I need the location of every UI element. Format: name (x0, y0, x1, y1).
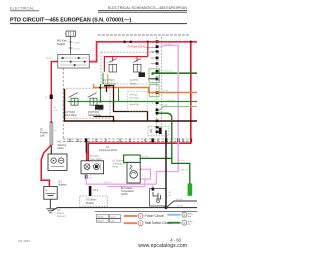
legend circle 3 (182, 212, 187, 217)
svg-text:(O) Org: (O) Org (161, 89, 169, 92)
header left rule (10, 9, 39, 12)
legend circle 4 (182, 220, 187, 225)
svg-text:www.epcatalogs.com: www.epcatalogs.com (138, 243, 187, 249)
wire: ground branch right (166, 207, 197, 209)
ground symbol battery (46, 209, 54, 213)
legend seat switch line (124, 222, 137, 224)
connector column pins (156, 40, 159, 133)
orange pin stub K3 (107, 74, 109, 84)
wire: red key switch to bus (89, 42, 197, 62)
wire: black relay to pin (148, 78, 157, 80)
svg-text:Clutch Relay: Clutch Relay (64, 114, 78, 117)
wire: battery to ground (49, 199, 51, 208)
connector highlight green box 2 (150, 85, 159, 97)
connector strip pins (85, 138, 192, 142)
connector strip X1 (63, 139, 191, 142)
key switch W1 (58, 54, 89, 68)
svg-text:K4 PTO(C): K4 PTO(C) (64, 112, 76, 114)
wire: brown step to right (107, 86, 148, 122)
wire: orange PTO clutch (94, 84, 198, 93)
svg-text:(R): (R) (54, 130, 57, 132)
green terminal cap (188, 183, 193, 195)
connector pin below lamp module (85, 174, 88, 178)
note box dashed (128, 92, 148, 112)
coolant temp switch B2 (150, 188, 172, 206)
svg-text:Motor: Motor (58, 147, 65, 150)
legend power circuit line (124, 215, 137, 217)
svg-text:Sw: Sw (188, 216, 191, 218)
legend green line (167, 222, 180, 224)
relay K1 symbol (133, 59, 145, 77)
ground junction dot (165, 206, 168, 209)
wire: black pin to lamp (85, 140, 87, 153)
svg-text:MX,4563: MX,4563 (18, 239, 30, 243)
legend circle 2 (138, 221, 143, 226)
connector X40 pink (140, 169, 151, 179)
junction dot green bottom (99, 100, 101, 102)
indicator lamp module H2 (81, 161, 104, 174)
svg-text:Switch: Switch (121, 193, 128, 196)
junction dot brown (112, 120, 114, 122)
svg-text:4 - 63: 4 - 63 (170, 238, 181, 243)
relay module box K4 K5 dashed (63, 88, 110, 118)
svg-text:(B) Blk: (B) Blk (177, 206, 184, 208)
wire: green from block (140, 157, 172, 159)
svg-text:X7.1: X7.1 (93, 188, 99, 192)
svg-text:Switch: Switch (57, 42, 66, 46)
wire: green relay feed (152, 73, 197, 75)
green pin stub K5 (118, 89, 120, 102)
svg-text:ELECTRICAL SCHEMATICS—455 EURO: ELECTRICAL SCHEMATICS—455 EUROPEAN (108, 6, 187, 10)
svg-text:Switch Rly: Switch Rly (129, 97, 138, 100)
wire: pink X7 branch (107, 179, 145, 187)
wire: red battery drop (41, 145, 51, 186)
wire: brown wrap around relay box (65, 89, 198, 121)
green pin stub K3 (102, 73, 104, 84)
battery G1 (44, 186, 57, 199)
svg-text:PTO CIRCUIT—455 EUROPEAN (S.N.: PTO CIRCUIT—455 EUROPEAN (S.N. 070001—) (10, 17, 131, 23)
svg-text:Red: Red (53, 110, 57, 112)
wire: pink lamp to bus (86, 174, 156, 184)
svg-text:H1 Engine: H1 Engine (112, 160, 123, 162)
connector K in battery wire (50, 95, 53, 99)
K2 label block (95, 107, 103, 112)
wire: red lamp drop (86, 153, 88, 162)
svg-text:PTO: PTO (188, 221, 193, 223)
legend blue line (167, 214, 180, 216)
title rule (10, 22, 187, 25)
wire: fusible to starting motor (50, 145, 52, 154)
svg-text:5 (Org): 5 (Org) (73, 47, 80, 50)
note box text (129, 94, 138, 106)
svg-text:(221) Grn: (221) Grn (163, 69, 173, 72)
harness dashed boundary left (62, 68, 64, 139)
ground bus wire (52, 208, 166, 211)
wire: ground branch diagonal (166, 201, 197, 208)
relay K4 symbol (69, 93, 78, 106)
svg-text:K5 PTO(S): K5 PTO(S) (88, 112, 99, 114)
svg-text:-: - (52, 195, 53, 199)
header right double rule (98, 9, 187, 12)
svg-text:Temperature: Temperature (121, 190, 135, 193)
svg-text:Ground: Ground (57, 215, 66, 218)
gray pin stubs (146, 48, 156, 64)
green connector block (124, 155, 141, 162)
wire: light green horizontal (158, 107, 197, 111)
relay module box K1 K3 dashed (101, 52, 158, 84)
svg-text:+: + (45, 188, 47, 192)
legend separator rule (95, 210, 197, 212)
svg-text:Relay: Relay (130, 83, 137, 85)
svg-text:(W) Pnk: (W) Pnk (104, 182, 111, 184)
svg-text:Blk: Blk (168, 195, 171, 197)
relay K5 symbol (88, 93, 104, 110)
wire: key switch lead (70, 36, 72, 54)
svg-text:Number: Number (97, 220, 104, 223)
junction dot fusible top (50, 121, 52, 123)
svg-text:PTO(S): PTO(S) (95, 110, 103, 112)
svg-text:K1 PTO: K1 PTO (130, 80, 138, 82)
wire: pink from connector (156, 45, 178, 184)
svg-text:1 (Blk): 1 (Blk) (73, 42, 80, 44)
svg-text:4 PTO(C): 4 PTO(C) (129, 94, 138, 96)
svg-text:(B) Blk: (B) Blk (176, 199, 183, 201)
svg-text:K3 PTO(C): K3 PTO(C) (103, 80, 115, 82)
svg-text:(G) Grn: (G) Grn (142, 156, 149, 158)
svg-text:Battery: Battery (58, 183, 67, 187)
legend table boxes (96, 215, 121, 222)
svg-text:(B): (B) (168, 192, 171, 194)
svg-text:Switch Rly: Switch Rly (129, 103, 138, 106)
junction dot green top (99, 87, 101, 89)
wire: green horizontal (68, 101, 198, 103)
starting motor M1 (48, 154, 67, 171)
svg-text:ELECTRICAL: ELECTRICAL (10, 6, 34, 10)
junction dot bus right (190, 41, 193, 44)
junction dot bus to K1 (147, 41, 149, 43)
wire: brown branch to relay (94, 117, 114, 122)
buzzer module A4 (127, 162, 140, 183)
svg-text:Instrument Panel: Instrument Panel (99, 149, 118, 152)
svg-text:(G) Grn: (G) Grn (177, 159, 185, 162)
svg-text:2 Seat(S): 2 Seat(S) (129, 100, 138, 103)
svg-text:Color: Color (110, 220, 115, 223)
wire: dark green to instrument panel (158, 113, 190, 189)
fuse F1 dots (123, 41, 126, 44)
connector column X2 dashed (156, 37, 158, 135)
svg-text:(Red): (Red) (46, 57, 52, 59)
svg-text:Symbol: Symbol (97, 217, 104, 219)
wire: green vertical from relay box (100, 84, 102, 102)
fusible link F2 (50, 123, 53, 146)
wire: pink into B2 (152, 184, 154, 189)
harness dashed boundary top (98, 34, 190, 36)
wire: red to fusible link (50, 99, 52, 123)
relay K3 symbol (109, 59, 117, 72)
svg-text:Power Circuit: Power Circuit (145, 214, 164, 218)
svg-text:Relay: Relay (112, 166, 119, 168)
wire: red drop to relay box (147, 42, 149, 57)
svg-text:Circuit: Circuit (110, 216, 116, 219)
diesel module connector X7.1 (89, 186, 92, 196)
connector X3 dashed (148, 126, 169, 136)
wire: red right vertical (88, 42, 191, 161)
svg-text:Module: Module (86, 202, 95, 205)
legend circle 1 (138, 213, 143, 218)
svg-text:F1 Fuse (15 A): F1 Fuse (15 A) (128, 45, 146, 49)
wire: black instrument ground (165, 130, 167, 207)
svg-text:W4 Wire: W4 Wire (90, 155, 100, 158)
connector highlight green box (149, 69, 159, 83)
svg-text:(R): (R) (53, 107, 56, 109)
svg-text:(G) Grn: (G) Grn (167, 99, 175, 102)
wire: red inside relay box (104, 57, 147, 72)
svg-text:(W) Pnk: (W) Pnk (164, 44, 173, 46)
svg-text:PTO: PTO (188, 213, 193, 215)
svg-text:(LG) Grn: (LG) Grn (160, 104, 169, 107)
wire: red battery feed from key switch (51, 62, 58, 95)
svg-text:(W) Pnk: (W) Pnk (181, 169, 190, 171)
key switch connector top (66, 31, 75, 36)
diesel module A7 dashed (80, 196, 107, 206)
svg-text:B2 Coolant: B2 Coolant (121, 187, 133, 190)
connector pin numbers (152, 42, 154, 105)
junction dots brown top (104, 85, 106, 87)
